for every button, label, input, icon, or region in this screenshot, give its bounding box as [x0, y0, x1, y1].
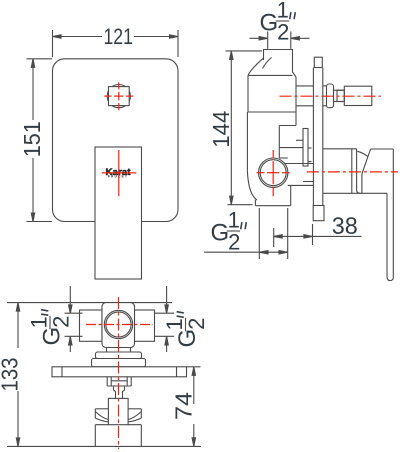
G1/2 label bottom-left rotated	[27, 310, 74, 346]
svg-text:FAUCET: FAUCET	[108, 175, 128, 179]
side view circle crosshair red	[257, 150, 399, 196]
side view lower centerline red	[307, 171, 398, 173]
handle (front)	[95, 147, 142, 279]
G1/2 top label	[260, 0, 296, 45]
button centerline (red crosshair)	[104, 82, 133, 110]
side view upper centerline red	[280, 95, 382, 97]
escutcheon bar	[52, 367, 187, 377]
dimension 151 extension line bottom	[27, 221, 53, 223]
handle hub right of plate	[323, 85, 327, 87]
diverter button circle	[107, 85, 130, 108]
dimension 121 line	[53, 36, 103, 38]
dimension 151 line	[32, 59, 34, 120]
dimension 133 line	[17, 303, 19, 348]
bonnet ring 2	[96, 352, 142, 359]
lever (side)	[371, 148, 394, 150]
dimension 121 extension line right	[177, 30, 179, 57]
svg-text:121: 121	[103, 24, 133, 49]
wings	[95, 408, 108, 410]
body bottom stub	[254, 200, 256, 206]
G1/2 top dim extension lines	[267, 32, 269, 49]
svg-text:151: 151	[19, 121, 45, 157]
plate (front)	[53, 59, 179, 222]
handle centerline red	[118, 150, 120, 196]
top extension line	[7, 302, 172, 304]
outlet channel under circle	[285, 163, 314, 165]
left port block	[80, 310, 103, 341]
lower outlet right of plate	[323, 148, 357, 150]
bonnet ring 3	[92, 359, 146, 367]
stem adapter	[114, 386, 125, 398]
logo red strike line	[102, 172, 136, 174]
G1/2 label lower	[211, 208, 247, 255]
body lower left	[246, 112, 248, 171]
right G1/2 dim	[166, 286, 168, 313]
cartridge nut	[108, 398, 128, 424]
dimension 144 ticks	[226, 50, 263, 52]
dimension 151 extension line top	[27, 58, 53, 60]
stem upper	[106, 377, 108, 386]
wall plate bar	[314, 57, 322, 67]
mounting bracket tab	[303, 129, 308, 167]
dimension 144 line	[230, 51, 232, 205]
38 dim extension at center	[273, 228, 275, 247]
diverter button square	[109, 87, 130, 106]
G1/2 label bottom-right rotated	[162, 312, 209, 348]
38 dim line	[274, 235, 362, 237]
body upper block	[247, 75, 249, 112]
dimension 121 extension line left	[52, 30, 54, 57]
dimension 74 line	[187, 366, 201, 368]
svg-text:74: 74	[170, 392, 196, 420]
wall plate foot	[313, 206, 324, 221]
lower block	[95, 425, 141, 447]
valve body (bottom view)	[102, 303, 135, 348]
bottom view vertical centerline red	[118, 297, 120, 449]
bottom view horizontal centerline red	[86, 324, 153, 326]
right step	[279, 125, 296, 127]
cartridge cylinder to plate	[296, 85, 313, 87]
G1/2 bottom dim (side view)	[258, 208, 260, 259]
left G1/2 dim	[69, 286, 71, 313]
body top stub	[264, 50, 297, 78]
G1/2 top dim arrows	[250, 37, 268, 39]
svg-text:38: 38	[332, 213, 358, 240]
svg-text:133: 133	[0, 358, 22, 392]
knob	[344, 86, 372, 105]
body shoulder	[248, 74, 293, 76]
diverter circle (side)	[259, 158, 288, 187]
bottom extension line	[7, 445, 201, 447]
svg-text:144: 144	[208, 110, 234, 147]
right port block	[135, 310, 155, 341]
valve circle	[104, 310, 132, 338]
bonnet ring 1	[106, 348, 108, 353]
